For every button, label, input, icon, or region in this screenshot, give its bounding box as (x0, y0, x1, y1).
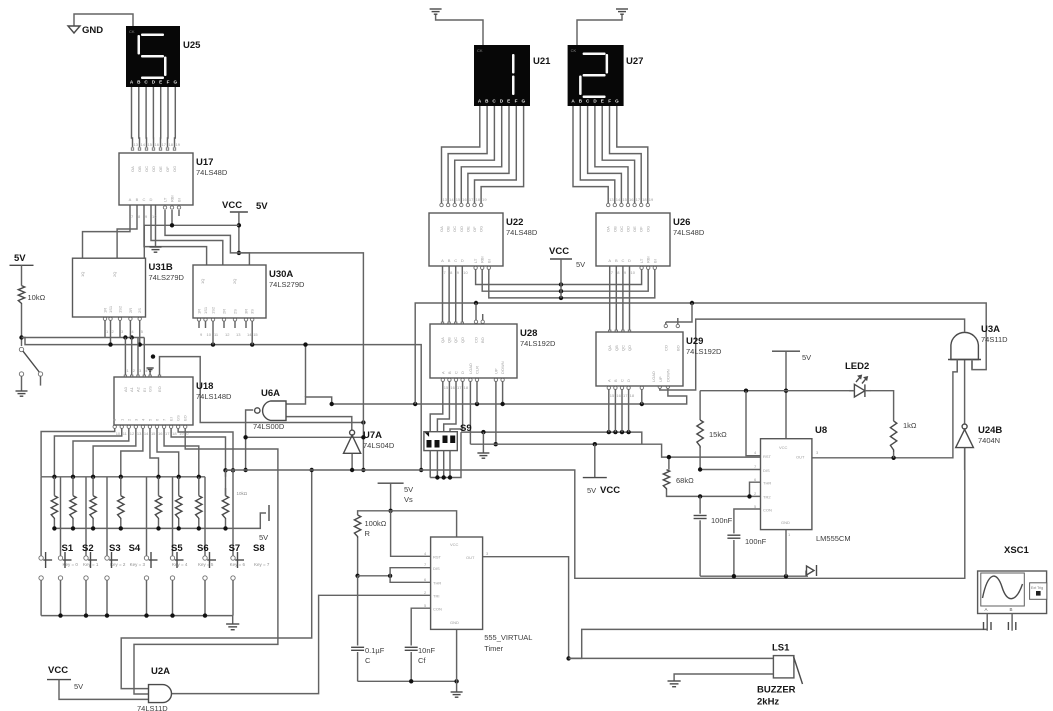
svg-text:3S: 3S (250, 309, 255, 314)
svg-text:10nF: 10nF (418, 646, 436, 655)
svg-text:OC: OC (452, 226, 457, 232)
svg-text:G: G (615, 99, 619, 104)
svg-text:OUT: OUT (466, 555, 475, 560)
ground small above U18 pin (147, 368, 154, 378)
svg-text:CK: CK (477, 48, 483, 53)
wire R8 top stub (225, 470, 227, 495)
svg-text:16: 16 (158, 431, 163, 436)
resistor bank R8 10kΩ (222, 488, 228, 528)
wire U18 output 1 to resistor bank (54, 425, 123, 477)
svg-text:15: 15 (610, 393, 615, 398)
svg-text:A1: A1 (129, 386, 134, 392)
wire U18 output 9 to S8 column (176, 425, 233, 470)
svg-text:U28: U28 (520, 328, 537, 339)
svg-text:C: C (454, 371, 459, 374)
svg-text:UP: UP (658, 376, 663, 382)
7-seg display U25 (126, 26, 180, 87)
svg-text:BO: BO (675, 345, 680, 351)
wire DIS junction (698, 467, 761, 471)
resistor 68kΩ (663, 455, 694, 490)
svg-text:RBI: RBI (646, 256, 651, 263)
svg-text:U7A: U7A (363, 430, 382, 441)
wire U8 ground bus (700, 530, 808, 578)
NAND gate U6A (mirrored) (253, 388, 286, 431)
pin U30A bottom x=205.5 (204, 318, 207, 328)
svg-text:100kΩ: 100kΩ (365, 519, 387, 528)
svg-text:OF: OF (165, 166, 170, 172)
svg-text:C: C (143, 197, 146, 202)
svg-text:RBI: RBI (170, 195, 175, 202)
svg-text:OC: OC (144, 166, 149, 172)
wire 555 ground bus (358, 629, 459, 692)
wire 10k to switch (19, 305, 23, 346)
wire buzzer ground (674, 674, 773, 681)
svg-text:B: B (448, 258, 451, 263)
svg-text:C: C (621, 258, 624, 263)
svg-text:G: G (522, 99, 526, 104)
wire U17 B input from U31B 2Q (117, 205, 137, 258)
wire U25 pin 1 to U17 (131, 87, 133, 150)
wire U18 output 0 to resistor bank (41, 425, 116, 477)
wire U29 output to U26 input x=609.7 (609, 266, 611, 333)
svg-text:U6A: U6A (261, 388, 280, 399)
svg-text:BUZZER: BUZZER (757, 685, 796, 696)
wire U6A input A net (LOAD line) (286, 342, 687, 406)
resistor R 100kΩ (354, 515, 386, 538)
svg-text:2S: 2S (233, 309, 238, 314)
svg-text:74LS11D: 74LS11D (137, 704, 168, 711)
wire S1 top to R1 (40, 477, 42, 556)
svg-text:74LS279D: 74LS279D (269, 280, 305, 289)
wire S9 ground mini-bus (430, 432, 461, 480)
svg-text:10: 10 (631, 270, 636, 275)
power 5V Vs (378, 483, 414, 513)
wire S8 top to R8 (232, 470, 234, 556)
svg-text:B: B (447, 371, 452, 374)
wire U29 data input x=608.8 (607, 386, 610, 432)
wire S2 top to R2 (60, 477, 62, 556)
wire U7A input from clock bus (350, 453, 354, 472)
svg-text:100nF: 100nF (745, 537, 767, 546)
switch S2 (Key = 1) (58, 543, 99, 616)
probe A (984, 614, 992, 631)
wire U28 output to U22 input x=455.7 (455, 266, 457, 325)
power 5V (U8) (772, 351, 811, 439)
svg-text:S3: S3 (109, 543, 121, 554)
svg-text:74LS00D: 74LS00D (253, 422, 285, 431)
svg-text:QC: QC (453, 337, 458, 343)
wire switch ground bus (41, 613, 233, 624)
svg-text:BI: BI (177, 198, 182, 202)
svg-text:A0: A0 (123, 386, 128, 392)
wire U21 seg C to U22 (453, 106, 494, 207)
svg-text:5V: 5V (74, 682, 83, 691)
svg-text:OG: OG (645, 226, 650, 232)
svg-text:15: 15 (456, 197, 461, 202)
switch S3 (Key = 2) (84, 543, 126, 616)
svg-text:2R: 2R (128, 308, 133, 313)
wire U21 seg D to U22 (460, 106, 502, 207)
wire S9 bottom pin 1 (429, 451, 431, 478)
switch S5 (Key = 4) (144, 543, 188, 616)
IC U28 74LS192D (430, 324, 517, 378)
svg-text:THR: THR (763, 481, 771, 486)
svg-text:13: 13 (236, 332, 241, 337)
wire U21 seg F to U22 (473, 106, 517, 207)
wire U17 A input from U31B 1Q (83, 205, 131, 258)
svg-text:U21: U21 (533, 56, 551, 67)
wire S9 bottom pin 2 (436, 451, 438, 478)
wire U18 output 8 to resistor bank (169, 425, 225, 477)
pin U30A bottom x=246 (244, 318, 247, 328)
svg-text:CO: CO (474, 337, 479, 343)
wire U25 pin 4 to U17 (152, 87, 154, 150)
svg-text:15: 15 (253, 332, 258, 337)
pin U29 borrow stub (676, 318, 679, 328)
svg-text:U26: U26 (673, 217, 690, 228)
svg-text:74LS148D: 74LS148D (196, 392, 232, 401)
wire U2A output to 555 TRI (172, 595, 431, 693)
LED LED2 (845, 361, 871, 397)
svg-text:EI: EI (142, 388, 147, 392)
switch S4 (Key = 3) (105, 543, 146, 616)
svg-text:18: 18 (630, 393, 635, 398)
svg-text:LT: LT (163, 197, 168, 202)
wire U18 EO pin to inhibit net (151, 354, 366, 424)
wire U29 output to U26 input x=616.3 (615, 266, 617, 333)
wire pullup long row to S9 column (22, 338, 424, 473)
svg-text:OE: OE (632, 226, 637, 232)
pin U31B bottom x=105 (103, 317, 106, 326)
svg-text:14: 14 (247, 332, 252, 337)
svg-text:2S: 2S (137, 308, 142, 313)
svg-text:GND: GND (82, 25, 103, 36)
svg-text:BI: BI (486, 259, 491, 263)
svg-text:0.1µF: 0.1µF (365, 646, 385, 655)
wire C cap column (351, 576, 364, 682)
wire U17 D input from U30A 2Q (151, 205, 223, 265)
svg-text:14: 14 (144, 431, 149, 436)
svg-text:A: A (129, 197, 132, 202)
switch SPDT J1 (19, 347, 42, 391)
wire U27 seg C to U26 (588, 106, 624, 207)
svg-text:LOAD: LOAD (468, 363, 473, 374)
svg-text:R: R (365, 529, 371, 538)
svg-text:A: A (441, 258, 444, 263)
svg-text:14: 14 (141, 142, 146, 147)
svg-text:RST: RST (433, 555, 442, 560)
ground sleeve U8 (806, 565, 817, 576)
svg-text:Key = 5: Key = 5 (198, 562, 214, 567)
svg-text:C: C (620, 379, 625, 382)
svg-text:E: E (507, 99, 510, 104)
svg-text:68kΩ: 68kΩ (676, 476, 694, 485)
wire U3A output to U29 down-clock (658, 319, 965, 390)
svg-text:OD: OD (151, 166, 156, 172)
wire THR tie (747, 482, 760, 498)
wire S3 top to R3 (85, 477, 87, 556)
svg-text:1S2: 1S2 (118, 305, 123, 313)
svg-text:E: E (159, 80, 162, 85)
svg-text:2Q: 2Q (232, 279, 237, 284)
wire U28 input C to S9 (444, 378, 458, 432)
resistor bank R5 10kΩ (155, 477, 161, 529)
wire U28 output to U22 input x=442.5 (441, 266, 443, 325)
svg-text:OG: OG (479, 226, 484, 232)
svg-text:U8: U8 (815, 425, 827, 436)
svg-text:A: A (440, 371, 445, 374)
svg-text:1Q: 1Q (200, 279, 205, 284)
svg-text:5V: 5V (256, 201, 268, 212)
svg-text:D: D (150, 197, 153, 202)
wire U17 BI/RBO pin to VCC (144, 210, 239, 258)
svg-text:A2: A2 (136, 386, 141, 392)
resistor bank R7 10kΩ (196, 477, 202, 529)
svg-text:15: 15 (151, 431, 156, 436)
wire R8 top jog (223, 468, 235, 472)
svg-text:17: 17 (165, 431, 170, 436)
svg-text:13: 13 (134, 142, 139, 147)
svg-text:U27: U27 (626, 56, 643, 67)
wire net to U2A input 1 (121, 468, 314, 689)
svg-text:OB: OB (446, 226, 451, 232)
power VCC (bottom left) (47, 665, 149, 699)
svg-text:E: E (601, 99, 604, 104)
svg-text:19: 19 (179, 431, 184, 436)
svg-text:1R: 1R (103, 308, 108, 313)
svg-text:QA: QA (440, 337, 445, 343)
svg-text:74LS48D: 74LS48D (196, 168, 228, 177)
svg-text:U24B: U24B (978, 425, 1002, 436)
wire LT/RBI bus 3 (487, 266, 656, 300)
svg-text:1S2: 1S2 (211, 306, 216, 314)
svg-text:Key = 2: Key = 2 (110, 562, 126, 567)
wire U6A input B from U7A (286, 417, 352, 431)
ground above U27 (577, 9, 628, 45)
svg-text:1R: 1R (197, 309, 202, 314)
svg-text:LT: LT (473, 258, 478, 263)
wire long vertical VCC to clock bus (249, 253, 365, 472)
svg-text:QD: QD (460, 337, 465, 343)
wire U29 load pin to load net (640, 386, 643, 404)
probe B (1008, 614, 1015, 631)
svg-text:TRI: TRI (433, 594, 439, 599)
svg-text:Vs: Vs (404, 495, 413, 504)
svg-text:16: 16 (629, 197, 634, 202)
svg-text:C: C (365, 656, 371, 665)
svg-text:U18: U18 (196, 381, 213, 392)
IC U17 74LS48D (119, 153, 193, 205)
svg-text:U25: U25 (183, 40, 201, 51)
svg-text:GND: GND (781, 520, 790, 525)
svg-text:A: A (985, 607, 988, 612)
svg-text:EO: EO (183, 415, 188, 421)
IC U31B 74LS279D (73, 258, 146, 317)
capacitor C 0.1µF labels (365, 646, 385, 665)
svg-text:BO: BO (480, 337, 485, 343)
svg-text:CLR: CLR (475, 366, 480, 374)
switch S9 DIP (424, 423, 472, 451)
wire U25 pin 6 to U17 (166, 87, 168, 150)
wire U29 carry to net (664, 303, 692, 328)
svg-text:QD: QD (627, 345, 632, 351)
svg-text:OUT: OUT (796, 455, 805, 460)
wire U27 seg E to U26 (602, 106, 636, 207)
svg-text:QC: QC (620, 345, 625, 351)
wire U21 seg G to U22 (479, 106, 523, 207)
svg-text:BI: BI (652, 259, 657, 263)
wire U28 CLR to VCC bus (469, 378, 472, 444)
wire 555 RST to Vs (391, 511, 431, 557)
svg-text:2Q: 2Q (112, 272, 117, 277)
wire U28 input D to S9 (450, 378, 464, 432)
svg-text:LED2: LED2 (845, 361, 869, 372)
IC U8 LM555CM (761, 439, 812, 530)
svg-text:GS: GS (148, 386, 153, 392)
wire counter carry net (long top) (415, 301, 986, 404)
svg-text:15: 15 (622, 197, 627, 202)
power VCC 5V (top left) (222, 200, 268, 255)
ground under SPDT (16, 390, 28, 392)
wire pullup to U18 EI pins (row) (22, 335, 145, 339)
wire CON to cap2 (727, 509, 760, 576)
svg-text:74LS192D: 74LS192D (686, 347, 722, 356)
svg-text:17: 17 (469, 197, 474, 202)
power VCC 5V (mid bottom) (583, 444, 620, 496)
resistor 1kΩ (890, 421, 917, 458)
svg-text:5V: 5V (802, 353, 811, 362)
wire U25 pin 7 to U17 (173, 87, 175, 150)
wire 15k top net (to LED) (700, 389, 854, 393)
svg-text:D: D (460, 371, 465, 374)
svg-text:S2: S2 (82, 543, 94, 554)
svg-text:A: A (608, 258, 611, 263)
wire U18 top pin x=131.7 (131, 338, 133, 378)
svg-text:19: 19 (176, 142, 181, 147)
svg-text:Key = 4: Key = 4 (172, 562, 188, 567)
svg-text:C: C (454, 258, 457, 263)
wire U25 pin 2 to U17 (138, 87, 140, 150)
wire U29 data input x=622 (620, 386, 623, 432)
oscilloscope XSC1 (978, 545, 1047, 614)
svg-text:B: B (615, 258, 618, 263)
wire U29 output to U26 input x=629.5 (628, 266, 630, 333)
wire LT/RBI bus 1 (474, 266, 643, 287)
svg-text:100nF: 100nF (711, 516, 733, 525)
wire U28 up-clock to VCC bus (494, 378, 498, 446)
wire U18 top pin x=125.4 (124, 338, 126, 378)
svg-text:U17: U17 (196, 157, 213, 168)
wire U29 output to U26 input x=622.9 (622, 266, 624, 333)
svg-text:RBI: RBI (480, 256, 485, 263)
ground above U21 (430, 9, 483, 45)
svg-text:14: 14 (449, 197, 454, 202)
svg-text:74LS04D: 74LS04D (363, 441, 395, 450)
svg-text:17: 17 (162, 142, 167, 147)
svg-text:17: 17 (636, 197, 641, 202)
wire U30A pin to long row (213, 328, 252, 345)
svg-text:CO: CO (663, 345, 668, 351)
svg-text:VCC: VCC (779, 445, 788, 450)
wire RST drop (746, 391, 761, 456)
svg-text:16: 16 (155, 142, 160, 147)
svg-text:S7: S7 (229, 543, 241, 554)
svg-text:13: 13 (609, 197, 614, 202)
svg-text:DIS: DIS (763, 468, 770, 473)
wire U18 top pin x=138 (137, 338, 139, 378)
wire S4 top to R4 (106, 477, 108, 556)
svg-text:S8: S8 (253, 543, 265, 554)
svg-text:5V: 5V (404, 485, 413, 494)
wire U27 seg F to U26 (610, 106, 643, 207)
wire LED to 1k (871, 391, 894, 421)
IC U18 74LS148D (114, 377, 193, 425)
svg-text:VCC: VCC (48, 665, 68, 676)
svg-text:18: 18 (169, 142, 174, 147)
svg-text:B: B (613, 379, 618, 382)
wire S9 bottom pin 3 (443, 451, 445, 478)
wire U28 down pin to LOAD line (500, 378, 504, 406)
svg-text:GS: GS (176, 415, 181, 421)
svg-text:19: 19 (649, 197, 654, 202)
svg-text:LOAD: LOAD (651, 371, 656, 382)
IC U26 74LS48D (596, 213, 670, 266)
pin U30A bottom x=199 (197, 318, 200, 328)
svg-text:OC: OC (619, 226, 624, 232)
svg-text:5V: 5V (14, 253, 26, 264)
svg-text:Key = 7: Key = 7 (254, 562, 270, 567)
wire VCC low bus (470, 442, 760, 457)
resistor bank R4 10kΩ (118, 477, 124, 529)
svg-text:CON: CON (433, 606, 442, 611)
svg-text:OG: OG (172, 166, 177, 172)
wire U27 seg A to U26 (573, 106, 610, 207)
svg-text:CK: CK (571, 48, 577, 53)
svg-text:18: 18 (476, 197, 481, 202)
svg-text:S6: S6 (197, 543, 209, 554)
resistor bank R6 10kΩ (176, 477, 182, 529)
svg-text:VCC: VCC (549, 246, 569, 257)
IC U22 74LS48D (429, 213, 503, 266)
wire S6 top to R6 (172, 477, 174, 556)
svg-text:2R: 2R (222, 309, 227, 314)
wire U29 data input x=628.6 (627, 386, 630, 432)
wire U24B chain (964, 360, 966, 424)
switch S8 (Key = 7) (231, 543, 270, 616)
wire U27 seg B to U26 (580, 106, 616, 207)
svg-text:D: D (461, 258, 464, 263)
wire U18 output 5 to resistor bank (148, 425, 158, 477)
wire U25 pin 3 to U17 (145, 87, 147, 150)
wire U6A output to clock bus (243, 410, 365, 472)
svg-text:15: 15 (444, 385, 449, 390)
wire ground bus right (U29 data) (461, 430, 642, 444)
svg-text:B: B (1010, 607, 1013, 612)
buzzer LS1 (757, 643, 803, 708)
svg-text:OF: OF (472, 226, 477, 232)
svg-text:10: 10 (116, 431, 121, 436)
svg-text:13: 13 (443, 197, 448, 202)
svg-text:QA: QA (607, 345, 612, 351)
pin U31B bottom x=130.4 (129, 317, 132, 326)
AND gate U2A (137, 666, 172, 711)
pin U31B bottom x=139.7 (138, 317, 141, 326)
power VCC (middle) (549, 246, 585, 298)
svg-text:5V: 5V (576, 260, 585, 269)
resistor 15kΩ (697, 391, 727, 470)
svg-text:16: 16 (616, 393, 621, 398)
pin number 555 pins (424, 551, 489, 608)
